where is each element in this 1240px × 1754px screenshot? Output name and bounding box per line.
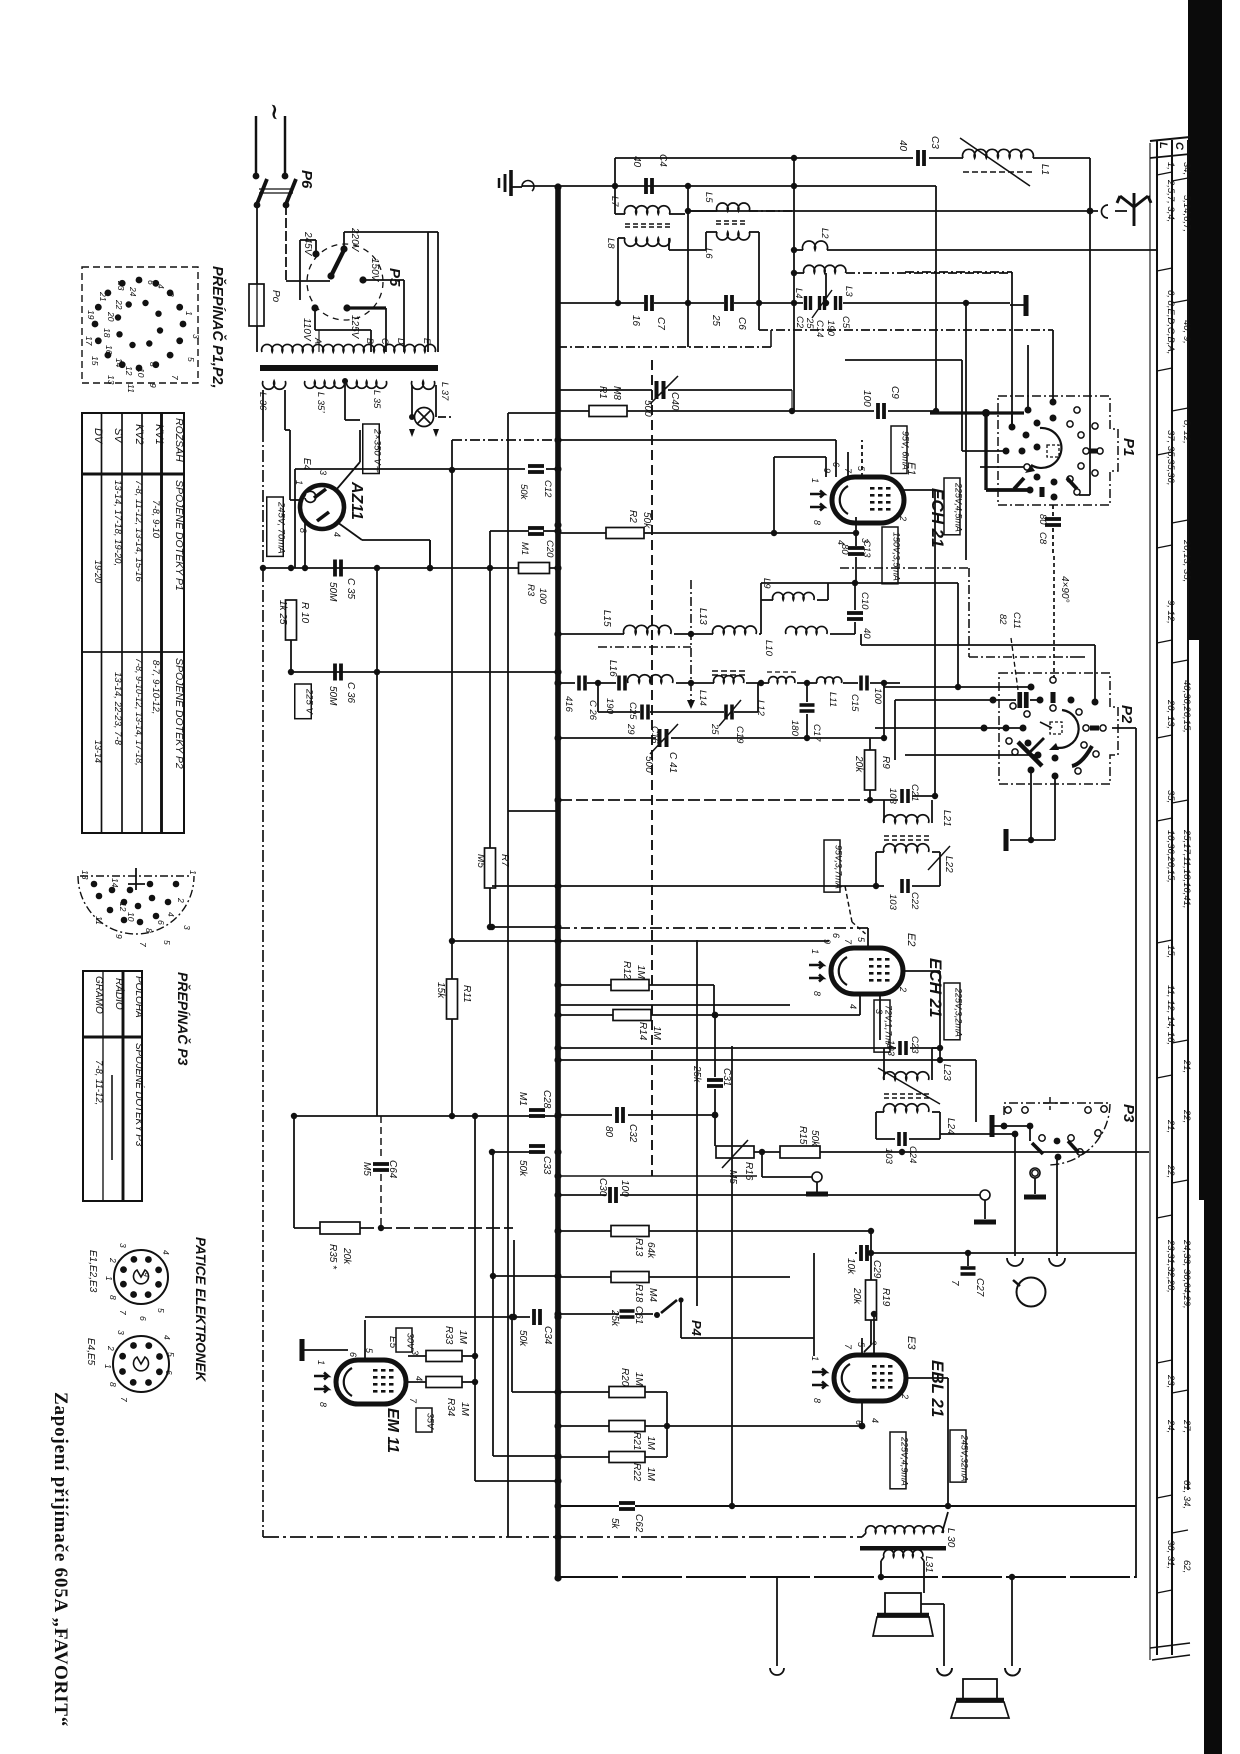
svg-text:245V,32mA: 245V,32mA — [959, 1434, 969, 1481]
svg-text:30V: 30V — [405, 1333, 415, 1350]
svg-text:21: 21 — [98, 291, 108, 302]
svg-text:L21: L21 — [941, 810, 952, 827]
C13 down — [855, 557, 857, 583]
tap wire 125V h — [347, 306, 386, 309]
ground left of P3 — [989, 1115, 994, 1137]
speaker1 feed — [921, 1603, 944, 1605]
v x688 — [687, 186, 689, 347]
hook feed x1012 — [1011, 1577, 1013, 1666]
L5L6 core dash2 — [716, 223, 748, 225]
coil L8 — [625, 238, 670, 246]
svg-text:3: 3 — [118, 1243, 128, 1248]
row y683 d — [746, 682, 769, 684]
bus junction — [554, 1452, 561, 1459]
R14 left — [560, 1014, 613, 1016]
node — [509, 1314, 515, 1320]
svg-text:C32: C32 — [627, 1124, 638, 1143]
capacitor C35 — [335, 560, 341, 577]
svg-text:M8: M8 — [611, 386, 622, 400]
svg-text:R1: R1 — [597, 386, 608, 399]
v x1012 411-427 — [1011, 411, 1013, 427]
svg-text:C27: C27 — [974, 1278, 985, 1297]
L14 core dash2 — [712, 674, 748, 676]
svg-text:8: 8 — [812, 1398, 822, 1403]
R18 left — [560, 1276, 611, 1278]
bus junction — [554, 527, 561, 534]
svg-text:R7: R7 — [499, 854, 510, 867]
v x884 683-738 — [883, 683, 885, 738]
svg-text:C 26: C 26 — [587, 700, 598, 721]
IF coil L22 — [884, 844, 929, 852]
R16 arrow — [722, 1140, 748, 1168]
svg-text:25: 25 — [709, 723, 720, 735]
tap wire B h — [315, 329, 371, 331]
dashed AVC line x652 — [651, 360, 653, 1176]
wire P6-P5 horizontal — [286, 280, 330, 282]
row y469 — [295, 468, 525, 470]
v x697 into audio — [696, 940, 698, 1306]
R34 right — [462, 1381, 475, 1383]
E2 grid dash — [852, 922, 868, 936]
node — [427, 565, 433, 571]
node — [791, 183, 797, 189]
P3 ground wire — [992, 1125, 1030, 1127]
svg-text:GRAMO: GRAMO — [93, 976, 104, 1014]
svg-text:M5: M5 — [361, 1162, 372, 1176]
bus junction — [554, 521, 561, 528]
svg-text:C 36: C 36 — [345, 682, 356, 704]
tube EM11 E5 — [314, 1360, 406, 1404]
EM11 gnd wire — [302, 1349, 348, 1351]
svg-text:L 30: L 30 — [945, 1528, 956, 1548]
node — [933, 408, 939, 414]
P2 v b — [894, 700, 896, 760]
R9 bottom — [869, 790, 871, 800]
R18 left stub — [493, 1275, 558, 1277]
table of P1 P2 switch contacts — [82, 413, 184, 833]
svg-text:103: 103 — [883, 1148, 894, 1165]
svg-text:3: 3 — [191, 334, 201, 339]
P2 osc link h — [861, 644, 1095, 646]
box 225V 4.9mA E3 — [890, 1432, 909, 1489]
L8 right down — [668, 238, 670, 250]
R10 lower wire — [290, 640, 292, 672]
svg-text:R11: R11 — [461, 985, 472, 1003]
svg-text:220V: 220V — [349, 227, 360, 253]
capacitor C24 — [899, 1132, 905, 1146]
C21 right link — [912, 795, 935, 797]
svg-text:PATICE ELEKTRONEK: PATICE ELEKTRONEK — [193, 1237, 208, 1383]
v x771 330-347 — [770, 330, 772, 347]
bus junction — [554, 1044, 561, 1051]
svg-text:L9: L9 — [761, 578, 772, 589]
antenna connector hook — [1102, 205, 1109, 218]
E1 pin7 up — [847, 452, 849, 477]
node — [291, 1113, 297, 1119]
L24 left down — [876, 1111, 884, 1113]
ground under R15 — [806, 1191, 828, 1196]
EM11 top v — [364, 1320, 366, 1350]
secondary winding L36 — [263, 381, 286, 389]
P5 tap 125V — [343, 304, 350, 311]
resistor R3 — [519, 563, 550, 574]
node — [1028, 837, 1034, 843]
L1 adjust arrow — [960, 138, 1030, 186]
svg-text:C 41: C 41 — [667, 752, 678, 773]
svg-text:ECH 21: ECH 21 — [926, 958, 945, 1018]
svg-text:R22: R22 — [631, 1463, 642, 1482]
svg-text:1: 1 — [103, 1364, 113, 1369]
switch P6 blade — [257, 179, 267, 204]
node — [489, 924, 495, 930]
AZ11 plate wire right — [345, 419, 360, 421]
P4 out — [681, 1337, 814, 1339]
svg-text:L24: L24 — [945, 1118, 956, 1135]
E1 grid h — [774, 456, 826, 458]
row y683 a — [558, 682, 575, 684]
bus junction — [554, 1533, 561, 1540]
svg-text:21,: 21, — [1181, 1059, 1192, 1073]
L12 core dash — [767, 671, 797, 673]
coil L14 — [714, 676, 744, 683]
E2 anode right — [902, 970, 940, 972]
svg-text:KV1: KV1 — [153, 424, 165, 445]
box leader dash — [845, 886, 852, 922]
P5 wiper blade — [331, 250, 344, 276]
svg-text:1: 1 — [104, 1276, 114, 1281]
tap wire C v — [385, 308, 387, 352]
svg-text:C11: C11 — [1011, 612, 1022, 629]
transformer core bar — [260, 365, 438, 371]
node — [881, 680, 887, 686]
svg-text:23,31,32,28,: 23,31,32,28, — [1165, 1239, 1176, 1293]
v x475 1356-1382 — [474, 1356, 476, 1382]
row y928 right — [558, 927, 868, 929]
L22 right v — [932, 851, 940, 853]
antenna line y211 — [688, 210, 1098, 212]
P6 contact — [253, 173, 260, 180]
resistor R13 — [611, 1226, 649, 1237]
svg-text:C64: C64 — [387, 1160, 398, 1179]
svg-text:20: 20 — [106, 311, 116, 322]
row y1116 left — [294, 1115, 558, 1117]
svg-text:13-14: 13-14 — [93, 740, 103, 763]
row y683 e — [797, 682, 817, 684]
P2 osc link v2 — [1094, 645, 1096, 699]
svg-text:L16: L16 — [607, 660, 618, 677]
capacitor C64 — [373, 1164, 389, 1170]
connector circle y1195 — [980, 1190, 990, 1200]
L5 left end — [688, 210, 717, 212]
svg-text:SPOJENÉ DOTEKY P1: SPOJENÉ DOTEKY P1 — [173, 480, 186, 591]
svg-text:3: 3 — [874, 1009, 884, 1014]
tube EBL21 E3 — [812, 1355, 906, 1401]
scan band right edge — [1188, 0, 1222, 1754]
svg-text:R18: R18 — [633, 1284, 644, 1303]
svg-text:25: 25 — [710, 314, 721, 327]
svg-text:19: 19 — [86, 310, 96, 320]
svg-text:EBL 21: EBL 21 — [928, 1360, 947, 1417]
row y1152 — [492, 1151, 530, 1153]
svg-text:4: 4 — [161, 1250, 171, 1255]
hook b feed — [776, 1578, 778, 1666]
svg-text:13-14, 17-18, 19-20,: 13-14, 17-18, 19-20, — [112, 480, 123, 566]
R22 left — [560, 1456, 609, 1458]
row y941 — [452, 940, 558, 942]
bus junction — [554, 436, 561, 443]
svg-text:13-14, 22-23, 7-8: 13-14, 22-23, 7-8 — [112, 672, 123, 746]
resistor R11 — [447, 979, 458, 1019]
P1 feeder h a — [845, 359, 962, 361]
L7 left end — [615, 213, 625, 215]
C11 leader dash — [1011, 638, 1018, 690]
svg-text:3: 3 — [116, 1330, 126, 1335]
C30 right — [620, 1194, 980, 1196]
svg-text:8: 8 — [108, 1382, 118, 1387]
node — [449, 1113, 455, 1119]
L23 core dash2 — [884, 1097, 932, 1099]
row y411 c — [888, 410, 938, 412]
svg-text:40: 40 — [861, 628, 872, 639]
L24 right v — [932, 1111, 940, 1113]
P1 lead y467 — [980, 466, 1024, 468]
bus junction — [554, 1453, 561, 1460]
antenna drop v1090 — [1089, 211, 1091, 440]
capacitor C62 — [619, 1503, 635, 1509]
svg-text:4×90°: 4×90° — [1059, 576, 1070, 603]
P1 heavy feeder y413 — [930, 411, 1024, 414]
svg-text:35,: 35, — [1165, 790, 1176, 803]
svg-text:15,: 15, — [1165, 945, 1176, 958]
svg-text:15k: 15k — [435, 982, 446, 999]
svg-text:125V: 125V — [349, 315, 360, 340]
speaker 1 — [873, 1593, 933, 1636]
P2 feeder y687 — [884, 686, 1029, 688]
svg-text:13: 13 — [106, 375, 116, 385]
row y712 c — [734, 711, 758, 713]
L24 right down — [939, 1112, 941, 1139]
svg-text:2: 2 — [900, 1393, 910, 1399]
node — [511, 1314, 517, 1320]
svg-text:20, 13,: 20, 13, — [1165, 699, 1176, 729]
output transformer L30 — [866, 1526, 944, 1533]
row y1005 — [560, 1004, 790, 1006]
mains lead right — [284, 116, 286, 174]
svg-text:35V: 35V — [425, 1413, 435, 1430]
E1 pin6 up — [835, 440, 837, 477]
svg-text:416: 416 — [563, 696, 574, 713]
bus junction — [554, 1422, 561, 1429]
R16 left v — [714, 1115, 716, 1146]
svg-text:24,: 24, — [1165, 1419, 1176, 1433]
L9 right v — [827, 583, 829, 600]
P5 tap 110V — [311, 304, 318, 311]
tap wire A v — [318, 330, 320, 352]
node — [963, 300, 969, 306]
L6 left v — [705, 232, 707, 250]
long v x732 1046-1506 — [731, 1046, 733, 1506]
P3 contact v — [1029, 1126, 1031, 1141]
switch P4 blade — [661, 1300, 677, 1313]
row y440 right — [558, 439, 836, 441]
node — [685, 183, 691, 189]
row y634 c — [759, 633, 761, 635]
L22 arrow — [928, 846, 950, 870]
P6 contact — [283, 202, 290, 209]
svg-text:1: 1 — [184, 311, 194, 316]
svg-text:80: 80 — [1037, 514, 1048, 525]
svg-text:23,: 23, — [1165, 1374, 1176, 1388]
E2 pin5 up — [867, 928, 869, 948]
voltage box 2x350V — [363, 424, 383, 474]
svg-text:C24: C24 — [907, 1146, 918, 1163]
gang dashdot y657 — [969, 656, 1070, 658]
P4 out v — [813, 1338, 815, 1356]
svg-text:10: 10 — [136, 368, 146, 378]
C11 right link — [1030, 699, 1038, 701]
node — [823, 300, 829, 306]
svg-text:M1: M1 — [519, 542, 530, 555]
tube ECH21 E2 — [809, 948, 903, 994]
node — [612, 183, 618, 189]
main B+ bus wire — [555, 187, 561, 1578]
gang link y657 — [1070, 656, 1085, 658]
capacitor C41 — [660, 729, 667, 747]
bus node y683 — [554, 679, 561, 686]
L23 right v — [931, 1048, 933, 1080]
v x615 — [614, 158, 616, 214]
box 225V 4.5mA E1 — [944, 478, 963, 535]
bus junction — [554, 1313, 561, 1320]
row y683 b — [587, 682, 616, 684]
svg-text:1: 1 — [188, 870, 198, 875]
L35 center tap — [342, 378, 348, 384]
C14 trim arrow — [812, 290, 832, 318]
svg-text:9: 9 — [822, 468, 832, 473]
node — [595, 680, 601, 686]
svg-text:50k: 50k — [641, 512, 652, 529]
svg-text:19-20: 19-20 — [93, 560, 103, 583]
coil L16 — [628, 675, 673, 683]
AZ11 cathode diag — [337, 522, 362, 540]
row y303 a — [560, 302, 644, 304]
svg-text:16: 16 — [630, 315, 641, 327]
C8 dash into P2 — [1053, 556, 1055, 678]
svg-text:R16: R16 — [743, 1162, 754, 1181]
resistor R12 — [611, 980, 649, 991]
v x430b — [429, 540, 431, 568]
left v x294 1116-1228 — [293, 1116, 295, 1228]
svg-text:C62: C62 — [633, 1514, 644, 1533]
svg-text:C34: C34 — [542, 1326, 553, 1345]
capacitor C61 — [620, 1311, 635, 1317]
resistor R19 — [866, 1280, 877, 1320]
capacitor C19 — [726, 705, 732, 720]
L2 left link — [794, 249, 803, 251]
coil L3 L4 — [804, 265, 846, 273]
svg-text:2: 2 — [898, 986, 908, 992]
svg-text:21,: 21, — [1165, 1119, 1176, 1133]
link v x377 — [376, 568, 378, 1116]
C24 right — [909, 1138, 940, 1140]
resistor R2 — [606, 528, 644, 539]
node — [712, 1112, 719, 1119]
long h y1060 — [560, 1059, 976, 1061]
L30 left curl — [862, 1533, 866, 1537]
connector hook b — [770, 1668, 784, 1675]
svg-text:6: 6 — [146, 280, 156, 285]
svg-text:L12: L12 — [755, 700, 766, 717]
coil L10 — [786, 626, 828, 634]
v x871 1231-1253 — [870, 1231, 872, 1253]
svg-text:R20: R20 — [619, 1368, 630, 1387]
svg-text:4: 4 — [332, 532, 342, 537]
node — [853, 530, 859, 536]
row y886 left — [492, 885, 558, 887]
P2 feeder y728 — [875, 727, 1021, 729]
top rail y185 — [522, 185, 936, 187]
resistor R33 — [426, 1351, 462, 1362]
node — [729, 1503, 735, 1509]
svg-text:1M: 1M — [459, 1402, 470, 1417]
row y1537 — [263, 1536, 862, 1538]
svg-text:1M: 1M — [651, 1026, 662, 1041]
node — [288, 669, 294, 675]
node heavy — [982, 409, 990, 417]
node — [899, 1149, 905, 1155]
svg-text:50k: 50k — [517, 1160, 528, 1177]
C24 left — [876, 1138, 895, 1140]
resistor R7 — [485, 848, 496, 888]
R19 top — [870, 1253, 872, 1280]
svg-text:24: 24 — [128, 286, 138, 297]
P6 link bar — [259, 188, 293, 190]
bottom rail y1578 — [558, 1576, 1136, 1578]
C10 bot v — [854, 622, 856, 634]
svg-text:RÁDIO: RÁDIO — [113, 978, 126, 1010]
left chassis border — [262, 430, 264, 1537]
C64 top v — [380, 1116, 382, 1160]
dial lamp — [415, 408, 434, 427]
svg-text:M1: M1 — [517, 1092, 528, 1106]
E2 pin4 v — [859, 993, 861, 1015]
C64 bot v — [380, 1174, 382, 1228]
bus junction — [554, 1227, 561, 1234]
node — [937, 1057, 943, 1063]
gang dashdot y568 right — [840, 567, 969, 569]
bus junction — [554, 1111, 561, 1118]
C29 left — [855, 1252, 857, 1254]
bus node y738 — [554, 734, 561, 741]
C23 right — [910, 1047, 940, 1049]
v x807 714-738 — [806, 714, 808, 738]
svg-text:25k: 25k — [609, 1309, 620, 1327]
y1195 gnd stem — [984, 1200, 986, 1219]
bus junction — [554, 183, 561, 190]
svg-text:E2: E2 — [905, 933, 917, 946]
capacitor C10 — [847, 613, 863, 619]
svg-text:3: 3 — [318, 470, 328, 475]
svg-text:9: 9 — [114, 934, 124, 939]
L30 right up — [942, 1512, 948, 1533]
resistor R9 — [865, 750, 876, 790]
svg-text:95V,3,7mA: 95V,3,7mA — [833, 845, 843, 889]
gang dashdot x969 — [968, 568, 970, 657]
svg-text:9: 9 — [148, 383, 158, 388]
resistor R35 — [320, 1222, 360, 1234]
v x714 985-1015 — [713, 985, 715, 1015]
speaker1 wire down — [943, 1604, 945, 1666]
